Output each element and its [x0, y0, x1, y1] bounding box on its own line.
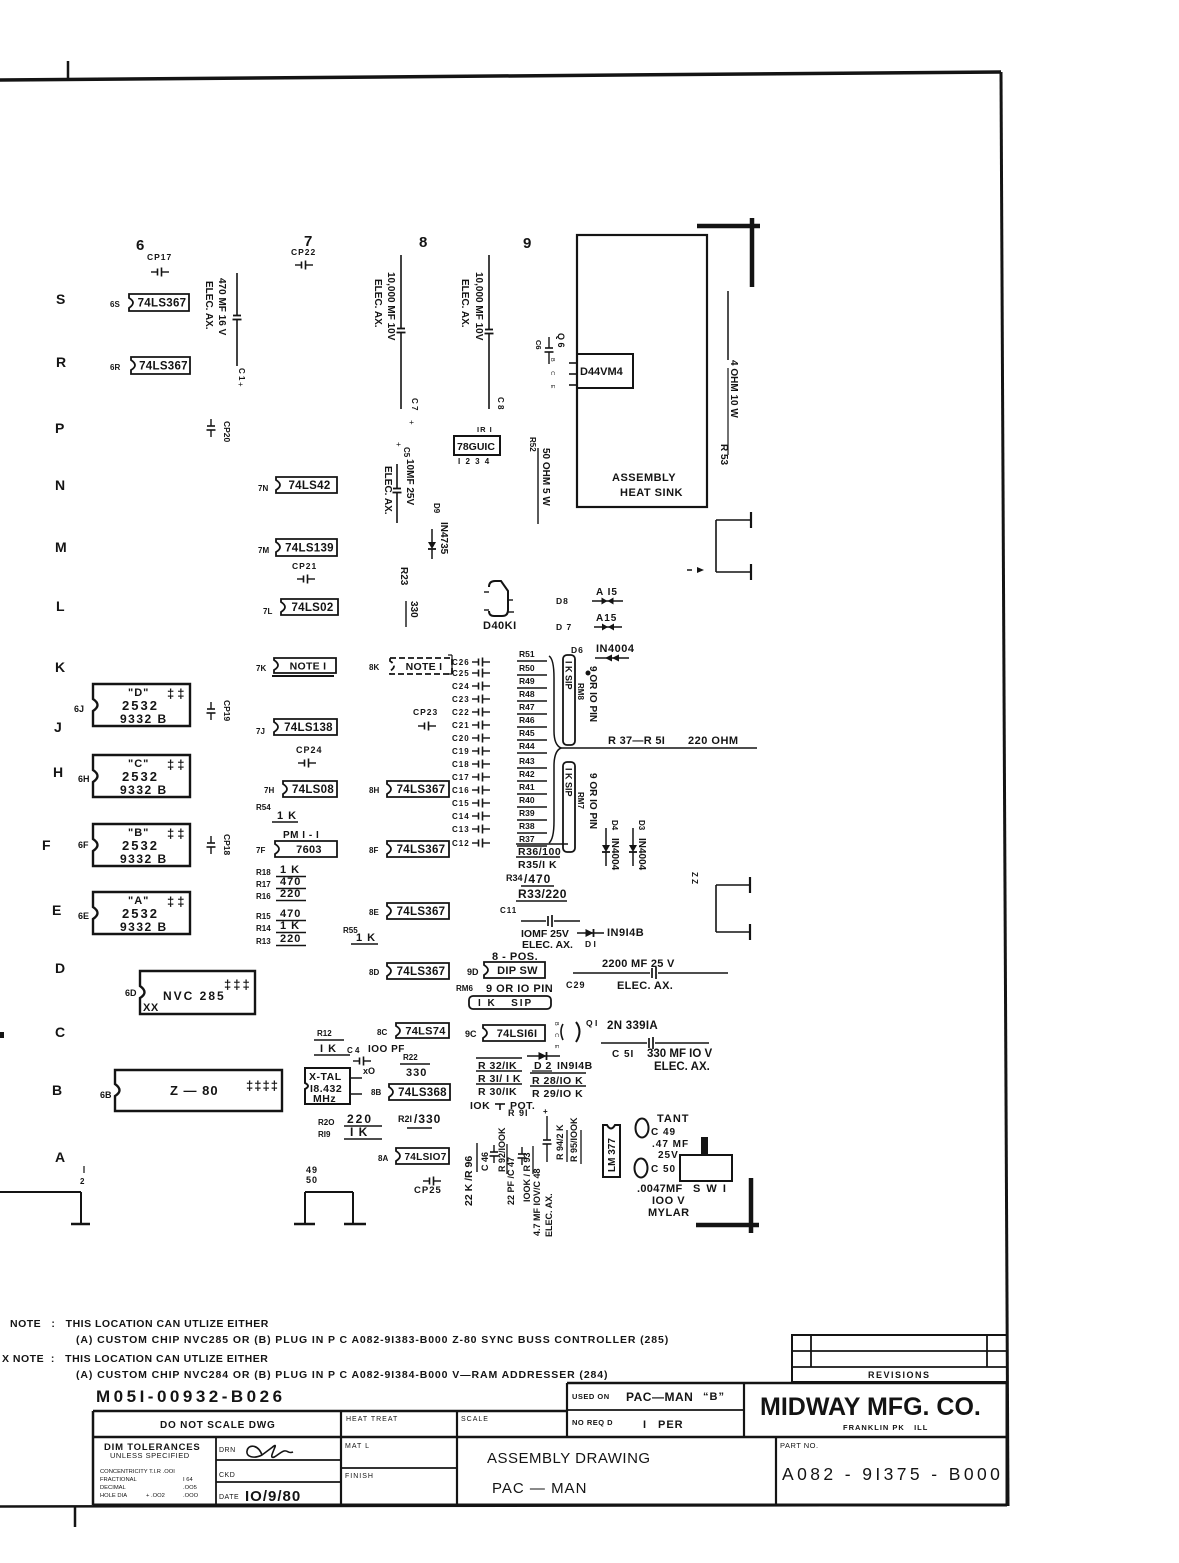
svg-text:4.7 MF IOV/C 48: 4.7 MF IOV/C 48 — [532, 1168, 542, 1236]
svg-text:74LS42: 74LS42 — [288, 480, 330, 492]
page top border — [0, 72, 1001, 80]
svg-text:xO: xO — [363, 1066, 375, 1076]
capacitor CP17 — [151, 271, 158, 273]
svg-text:DO NOT SCALE DWG: DO NOT SCALE DWG — [160, 1420, 276, 1431]
svg-text:‡‡: ‡‡ — [167, 894, 187, 909]
svg-text:ELEC. AX.: ELEC. AX. — [203, 281, 214, 330]
svg-text:CKD: CKD — [219, 1472, 235, 1479]
chip 8B 74LS368 — [389, 1084, 450, 1100]
svg-text:74LSI6I: 74LSI6I — [497, 1028, 538, 1040]
switch SW1 body — [680, 1155, 732, 1181]
svg-text:IOO PF: IOO PF — [368, 1044, 405, 1055]
svg-text:220 OHM: 220 OHM — [688, 735, 739, 747]
svg-text:R36/100: R36/100 — [518, 846, 561, 858]
svg-text:PM I - I: PM I - I — [283, 830, 319, 841]
capacitor CP21 — [297, 578, 304, 580]
Q6 pin stubs — [569, 362, 577, 364]
svg-text:8D: 8D — [369, 968, 379, 977]
svg-text:R52: R52 — [528, 437, 537, 452]
svg-text:R23: R23 — [398, 567, 409, 586]
svg-text:CP17: CP17 — [147, 252, 172, 262]
svg-text:10,000 MF 10V: 10,000 MF 10V — [473, 272, 484, 341]
svg-text:CP25: CP25 — [414, 1185, 442, 1196]
crystal X-TAL box — [305, 1068, 350, 1104]
capacitor C8 10000MF lead — [488, 255, 490, 330]
SIP resistor pack RM7 — [563, 762, 575, 852]
capacitor C6 — [548, 337, 550, 348]
svg-text:R18: R18 — [256, 868, 271, 877]
svg-text:330: 330 — [406, 1067, 427, 1079]
svg-text:NO REQ D: NO REQ D — [572, 1418, 613, 1427]
svg-text:MAT L: MAT L — [345, 1443, 370, 1450]
resistor R35 label — [516, 856, 560, 858]
svg-text:C17: C17 — [452, 773, 470, 782]
svg-text:C12: C12 — [452, 839, 470, 848]
svg-text:‡‡: ‡‡ — [167, 757, 187, 772]
svg-text:R39: R39 — [519, 808, 535, 818]
capacitor C51 symbol — [601, 1042, 647, 1044]
svg-text:74LS08: 74LS08 — [292, 784, 334, 796]
svg-text:M: M — [55, 539, 67, 555]
svg-text:XX: XX — [143, 1002, 159, 1014]
svg-text:R37: R37 — [519, 834, 535, 844]
svg-text:R16: R16 — [256, 892, 271, 901]
svg-text:R 53: R 53 — [718, 444, 729, 466]
svg-text:2N 339IA: 2N 339IA — [607, 1020, 658, 1032]
svg-text:CP19: CP19 — [222, 700, 232, 722]
svg-text:D40KI: D40KI — [483, 620, 517, 632]
svg-text:R 3I/ I K: R 3I/ I K — [478, 1073, 521, 1085]
resistor R31 label — [476, 1070, 522, 1072]
capacitor C22 — [472, 711, 479, 713]
capacitor CP18 — [210, 836, 212, 843]
svg-text:‡‡‡: ‡‡‡ — [224, 977, 252, 992]
chip 6D NVC 285 outline — [140, 971, 255, 1014]
svg-text:9332 B: 9332 B — [120, 852, 168, 866]
svg-text:D8: D8 — [556, 596, 569, 606]
svg-text:470 MF 16 V: 470 MF 16 V — [216, 278, 227, 336]
svg-text:D44VM4: D44VM4 — [580, 366, 624, 378]
left edge mark — [0, 1032, 4, 1038]
svg-text:74LS367: 74LS367 — [397, 966, 446, 978]
svg-text:P: P — [55, 420, 64, 436]
title block borders — [93, 1410, 567, 1413]
svg-text:.OO5: .OO5 — [183, 1485, 197, 1491]
svg-text:N: N — [55, 477, 65, 493]
svg-text:C14: C14 — [452, 812, 470, 821]
svg-text:L: L — [56, 598, 65, 614]
capacitor CP19 — [210, 702, 212, 709]
svg-text:DIP SW: DIP SW — [497, 965, 538, 977]
svg-text:/470: /470 — [524, 872, 551, 886]
svg-text:R 32/IK: R 32/IK — [478, 1060, 517, 1072]
svg-text:6E: 6E — [78, 911, 89, 921]
svg-text:C 49: C 49 — [651, 1127, 676, 1138]
svg-text:2532: 2532 — [122, 698, 159, 713]
ROM 6H outline — [93, 755, 190, 797]
svg-text:USED ON: USED ON — [572, 1392, 610, 1401]
svg-text:D 2: D 2 — [534, 1060, 552, 1072]
svg-text:UNLESS SPECIFIED: UNLESS SPECIFIED — [110, 1451, 190, 1460]
svg-text:FINISH: FINISH — [345, 1473, 374, 1480]
svg-text:DRN: DRN — [219, 1447, 236, 1454]
svg-text:C 7: C 7 — [410, 398, 419, 411]
power rail corner mark top right — [697, 224, 760, 229]
svg-text:220: 220 — [280, 888, 301, 900]
svg-text:1 K: 1 K — [280, 864, 300, 876]
svg-text:R45: R45 — [519, 728, 535, 738]
svg-text:R35/I K: R35/I K — [518, 859, 557, 871]
svg-text:R42: R42 — [519, 769, 535, 779]
svg-text:74LS74: 74LS74 — [405, 1026, 446, 1038]
svg-text:IOO V: IOO V — [652, 1195, 685, 1207]
svg-text:ELEC. AX.: ELEC. AX. — [617, 980, 673, 992]
svg-text:C6: C6 — [534, 340, 543, 350]
chip 6B Z-80 outline — [115, 1070, 282, 1111]
svg-text:+ .OO2: + .OO2 — [146, 1493, 165, 1499]
svg-text:D 7: D 7 — [556, 622, 572, 632]
svg-text:22 PF /C 47: 22 PF /C 47 — [506, 1157, 516, 1205]
svg-text:C13: C13 — [452, 825, 470, 834]
svg-text:LM 377: LM 377 — [607, 1138, 618, 1172]
svg-text:NOTE I: NOTE I — [290, 661, 327, 673]
svg-text:8F: 8F — [369, 846, 378, 855]
svg-text:NVC 285: NVC 285 — [163, 989, 226, 1003]
svg-text:/330: /330 — [414, 1112, 441, 1126]
svg-text:‡‡: ‡‡ — [167, 686, 187, 701]
assembly heat sink outline — [577, 235, 707, 507]
svg-text:R15: R15 — [256, 912, 271, 921]
svg-text:9332 B: 9332 B — [120, 920, 168, 934]
capacitor CP25 — [423, 1180, 430, 1182]
svg-text:R43: R43 — [519, 756, 535, 766]
svg-text:470: 470 — [280, 876, 301, 888]
chip 9C 74LS161 — [483, 1025, 545, 1041]
svg-text:74LS367: 74LS367 — [397, 906, 446, 918]
svg-text:C 50: C 50 — [651, 1164, 676, 1175]
svg-text:7F: 7F — [256, 846, 265, 855]
svg-text:9C: 9C — [465, 1029, 477, 1039]
svg-text:.OOO: .OOO — [183, 1493, 199, 1499]
svg-text:Z — 80: Z — 80 — [170, 1083, 219, 1098]
capacitor C4 symbol — [353, 1060, 360, 1062]
svg-text:C15: C15 — [452, 799, 470, 808]
switch DIP SW box — [484, 962, 545, 978]
svg-text:R48: R48 — [519, 689, 535, 699]
svg-text:2200 MF 25 V: 2200 MF 25 V — [602, 958, 675, 970]
svg-text:6R: 6R — [110, 363, 120, 372]
svg-text:7M: 7M — [258, 546, 269, 555]
svg-text:FRACTIONAL: FRACTIONAL — [100, 1477, 137, 1483]
svg-text:RM8: RM8 — [576, 683, 585, 700]
diode D9 symbol — [431, 529, 433, 542]
svg-text:R38: R38 — [519, 821, 535, 831]
svg-text:D6: D6 — [571, 645, 584, 655]
revisions table — [792, 1335, 1007, 1382]
svg-text:25V: 25V — [658, 1150, 679, 1161]
svg-text:9D: 9D — [467, 967, 479, 977]
svg-text:‡‡‡‡: ‡‡‡‡ — [246, 1078, 279, 1093]
resistor R53 lead — [727, 291, 729, 360]
svg-text:1 K: 1 K — [356, 932, 376, 944]
bottom border tick — [74, 1506, 77, 1527]
svg-text:C 1: C 1 — [237, 368, 246, 381]
svg-text:R54: R54 — [256, 803, 271, 812]
svg-text:B C E: B C E — [553, 1022, 559, 1051]
svg-text:SCALE: SCALE — [461, 1416, 489, 1423]
page right border — [1001, 72, 1008, 1506]
svg-text:74LS367: 74LS367 — [397, 844, 446, 856]
chip 8H 74LS367 — [387, 781, 449, 797]
svg-text:E: E — [52, 902, 61, 918]
regulator IR1 78GUIC box — [454, 436, 500, 455]
junction dot near D6 — [586, 671, 591, 676]
svg-text:IN4004: IN4004 — [636, 838, 647, 871]
svg-text:74LS02: 74LS02 — [291, 602, 333, 614]
svg-text:RI9: RI9 — [318, 1130, 331, 1139]
svg-text:I K SIP: I K SIP — [564, 768, 574, 797]
svg-text:H: H — [53, 764, 63, 780]
svg-text:ASSEMBLY DRAWING: ASSEMBLY DRAWING — [487, 1450, 651, 1467]
svg-text:7K: 7K — [256, 664, 266, 673]
diode D7 — [594, 626, 622, 628]
svg-text:9 OR IO PIN: 9 OR IO PIN — [486, 983, 553, 995]
svg-text:J: J — [54, 719, 62, 735]
svg-text:470: 470 — [280, 908, 301, 920]
svg-text:R 29/IO K: R 29/IO K — [532, 1088, 583, 1100]
svg-text:74LS367: 74LS367 — [397, 784, 446, 796]
chip 7J 74LS138 — [274, 719, 337, 735]
svg-text:R33/220: R33/220 — [518, 887, 567, 901]
svg-text:S W I: S W I — [693, 1183, 727, 1195]
resistor R23 value 330 — [405, 601, 407, 627]
svg-text:D I: D I — [585, 939, 596, 949]
svg-text:A15: A15 — [596, 613, 617, 624]
svg-text:R 95/IOOK: R 95/IOOK — [569, 1117, 579, 1162]
svg-text:CP24: CP24 — [296, 745, 323, 755]
svg-text:10,000 MF 10V: 10,000 MF 10V — [385, 272, 396, 341]
svg-text:RM6: RM6 — [456, 984, 473, 993]
transistor Q6 D44VM4 box — [577, 354, 633, 388]
svg-text:C26: C26 — [452, 658, 470, 667]
svg-text:7H: 7H — [264, 786, 274, 795]
svg-text:C 8: C 8 — [496, 397, 505, 410]
ROM 6F outline — [93, 824, 190, 866]
svg-text:C21: C21 — [452, 721, 470, 730]
svg-text:R17: R17 — [256, 880, 271, 889]
svg-text:TANT: TANT — [657, 1113, 690, 1125]
svg-text:FRANKLIN PK ILL: FRANKLIN PK ILL — [843, 1423, 928, 1432]
svg-text:9332 B: 9332 B — [120, 712, 168, 726]
svg-text:ELEC. AX.: ELEC. AX. — [459, 279, 470, 328]
svg-text:7L: 7L — [263, 607, 272, 616]
arrow into bracket — [687, 569, 692, 571]
diode D6 — [595, 657, 629, 659]
svg-text:CP22: CP22 — [291, 247, 316, 257]
svg-text:6H: 6H — [78, 774, 90, 784]
svg-text:“B”: “B” — [703, 1391, 725, 1403]
svg-text:C 5I: C 5I — [612, 1049, 634, 1060]
bracket to C26 C25 — [448, 654, 452, 656]
svg-text:IN4735: IN4735 — [438, 522, 449, 555]
svg-text:ELEC. AX.: ELEC. AX. — [654, 1061, 710, 1073]
brace for R37-R51 — [549, 656, 561, 843]
svg-text:8B: 8B — [371, 1088, 381, 1097]
chip 8F 74LS367 — [387, 841, 449, 857]
svg-text:C18: C18 — [452, 760, 470, 769]
svg-text:MYLAR: MYLAR — [648, 1207, 690, 1219]
resistor R30 label — [476, 1083, 522, 1085]
svg-text:RM7: RM7 — [576, 792, 585, 809]
svg-text:1 K: 1 K — [277, 810, 297, 822]
svg-text:D: D — [55, 960, 65, 976]
svg-text:ELEC. AX.: ELEC. AX. — [522, 939, 573, 951]
chip 7M 74LS139 — [276, 539, 337, 556]
capacitor C15 — [472, 802, 479, 804]
svg-text:.0047MF: .0047MF — [637, 1183, 683, 1195]
svg-text:R: R — [56, 354, 66, 370]
svg-text:C24: C24 — [452, 682, 470, 691]
svg-text:ELEC. AX.: ELEC. AX. — [382, 466, 393, 515]
capacitor C5 lead — [396, 464, 398, 489]
svg-text:R50: R50 — [519, 663, 535, 673]
svg-text:22 K /R 96: 22 K /R 96 — [463, 1156, 475, 1206]
svg-text:R34: R34 — [506, 873, 523, 883]
svg-text:HEAT TREAT: HEAT TREAT — [346, 1416, 398, 1423]
svg-text:MIDWAY MFG. CO.: MIDWAY MFG. CO. — [760, 1393, 981, 1421]
svg-text:74LSIO7: 74LSIO7 — [404, 1152, 446, 1163]
svg-text:9 OR IO PIN: 9 OR IO PIN — [587, 773, 598, 829]
svg-text:R2O: R2O — [318, 1118, 334, 1127]
chip 7N 74LS42 — [276, 477, 337, 493]
svg-text:D4: D4 — [610, 820, 619, 831]
svg-text:50: 50 — [306, 1175, 318, 1185]
svg-text:REVISIONS: REVISIONS — [868, 1370, 931, 1380]
capacitor C16 — [472, 789, 479, 791]
svg-text:CP21: CP21 — [292, 561, 317, 571]
svg-text:R2I: R2I — [398, 1114, 412, 1124]
SIP resistor pack RM8 — [563, 655, 575, 745]
capacitor C18 — [472, 763, 479, 765]
resistor R52 lead — [537, 448, 539, 524]
chip 7L 74LS02 — [281, 599, 338, 615]
svg-text:I 64: I 64 — [183, 1477, 193, 1483]
svg-text:B: B — [52, 1082, 62, 1098]
svg-text:7J: 7J — [256, 727, 265, 736]
svg-text:I: I — [643, 1419, 646, 1431]
chip 8A 74LS107 — [396, 1148, 449, 1164]
capacitor C24 — [472, 685, 479, 687]
svg-text:8H: 8H — [369, 786, 379, 795]
svg-text:9332 B: 9332 B — [120, 783, 168, 797]
svg-text:C23: C23 — [452, 695, 470, 704]
svg-text:NOTE I: NOTE I — [406, 661, 443, 673]
svg-text:PER: PER — [658, 1419, 684, 1431]
capacitor C46 symbol — [493, 1145, 495, 1152]
capacitor C17 — [472, 776, 479, 778]
svg-text:50 OHM 5 W: 50 OHM 5 W — [540, 448, 551, 506]
diode D8 — [592, 600, 623, 602]
chip 7F 7603 — [275, 841, 337, 857]
svg-text:C25: C25 — [452, 669, 470, 678]
svg-text:A: A — [55, 1149, 65, 1165]
svg-text:1 K: 1 K — [280, 920, 300, 932]
svg-text:CONCENTRICITY T.I.R .OOI: CONCENTRICITY T.I.R .OOI — [100, 1469, 175, 1475]
transistor Q1 arcs — [561, 1024, 563, 1040]
svg-text:R46: R46 — [519, 715, 535, 725]
svg-text:R 9I: R 9I — [508, 1108, 529, 1118]
connector bottom left — [0, 1191, 81, 1193]
svg-text:I K: I K — [320, 1043, 337, 1055]
connector bottom middle — [305, 1191, 353, 1193]
svg-text:78GUIC: 78GUIC — [457, 441, 495, 453]
svg-text:(A) CUSTOM CHIP NVC285 OR: (A) CUSTOM CHIP NVC285 OR (B) PLUG IN P … — [76, 1334, 669, 1346]
svg-text:K: K — [55, 659, 65, 675]
SIP resistor pack RM6 — [469, 996, 551, 1009]
top border tick — [67, 61, 70, 79]
power rail corner mark bottom right — [749, 1178, 754, 1233]
svg-text:CP20: CP20 — [222, 421, 232, 443]
capacitor C1 470MF lead — [236, 273, 238, 316]
svg-text:6D: 6D — [125, 988, 137, 998]
svg-text:C22: C22 — [452, 708, 470, 717]
capacitor C23 — [472, 698, 479, 700]
wire callout R37-R51 — [561, 747, 757, 749]
regulator LM377 box — [603, 1125, 620, 1177]
chip 8K NOTE 1 box — [390, 658, 452, 674]
svg-text:2: 2 — [80, 1177, 85, 1186]
svg-text:6J: 6J — [74, 704, 84, 714]
connector pin label 2 — [83, 1166, 85, 1173]
svg-text:HOLE DIA: HOLE DIA — [100, 1493, 127, 1499]
svg-text:IN4004: IN4004 — [596, 643, 635, 655]
svg-text:49: 49 — [306, 1165, 318, 1175]
svg-text:R40: R40 — [519, 795, 535, 805]
svg-text:+: + — [407, 420, 416, 425]
svg-text:C29: C29 — [566, 980, 586, 990]
svg-text:A082 - 9I375 - B000: A082 - 9I375 - B000 — [782, 1464, 1003, 1484]
svg-text:F: F — [42, 837, 51, 853]
svg-text:74LS138: 74LS138 — [284, 722, 333, 734]
svg-text:R49: R49 — [519, 676, 535, 686]
svg-text:I K SIP: I K SIP — [478, 998, 533, 1009]
svg-text:R44: R44 — [519, 741, 535, 751]
svg-text:+: + — [394, 442, 403, 447]
connector bracket right upper — [716, 519, 751, 521]
chip 8C 74LS74 — [396, 1023, 449, 1038]
capacitor C19 — [472, 750, 479, 752]
svg-text:ELEC. AX.: ELEC. AX. — [372, 279, 383, 328]
svg-text:I K SIP: I K SIP — [564, 661, 574, 690]
svg-text:R51: R51 — [519, 649, 535, 659]
svg-text:4 OHM 10 W: 4 OHM 10 W — [728, 360, 739, 418]
svg-text:‡‡: ‡‡ — [167, 826, 187, 841]
crystal pin stubs — [350, 1077, 362, 1079]
svg-text:R14: R14 — [256, 924, 271, 933]
diode D4 symbol — [605, 828, 607, 845]
svg-text:6: 6 — [136, 237, 144, 254]
svg-text:74LS367: 74LS367 — [138, 298, 187, 310]
svg-text:S: S — [56, 291, 65, 307]
svg-text:PART NO.: PART NO. — [780, 1441, 819, 1450]
svg-text:ASSEMBLY: ASSEMBLY — [612, 472, 676, 484]
capacitor C50 body — [635, 1159, 648, 1178]
chip 7H 74LS08 — [283, 781, 337, 797]
svg-text:+: + — [543, 1107, 548, 1116]
svg-text:.47 MF: .47 MF — [652, 1139, 689, 1150]
svg-text:6S: 6S — [110, 300, 120, 309]
svg-text:74LS139: 74LS139 — [285, 543, 334, 555]
